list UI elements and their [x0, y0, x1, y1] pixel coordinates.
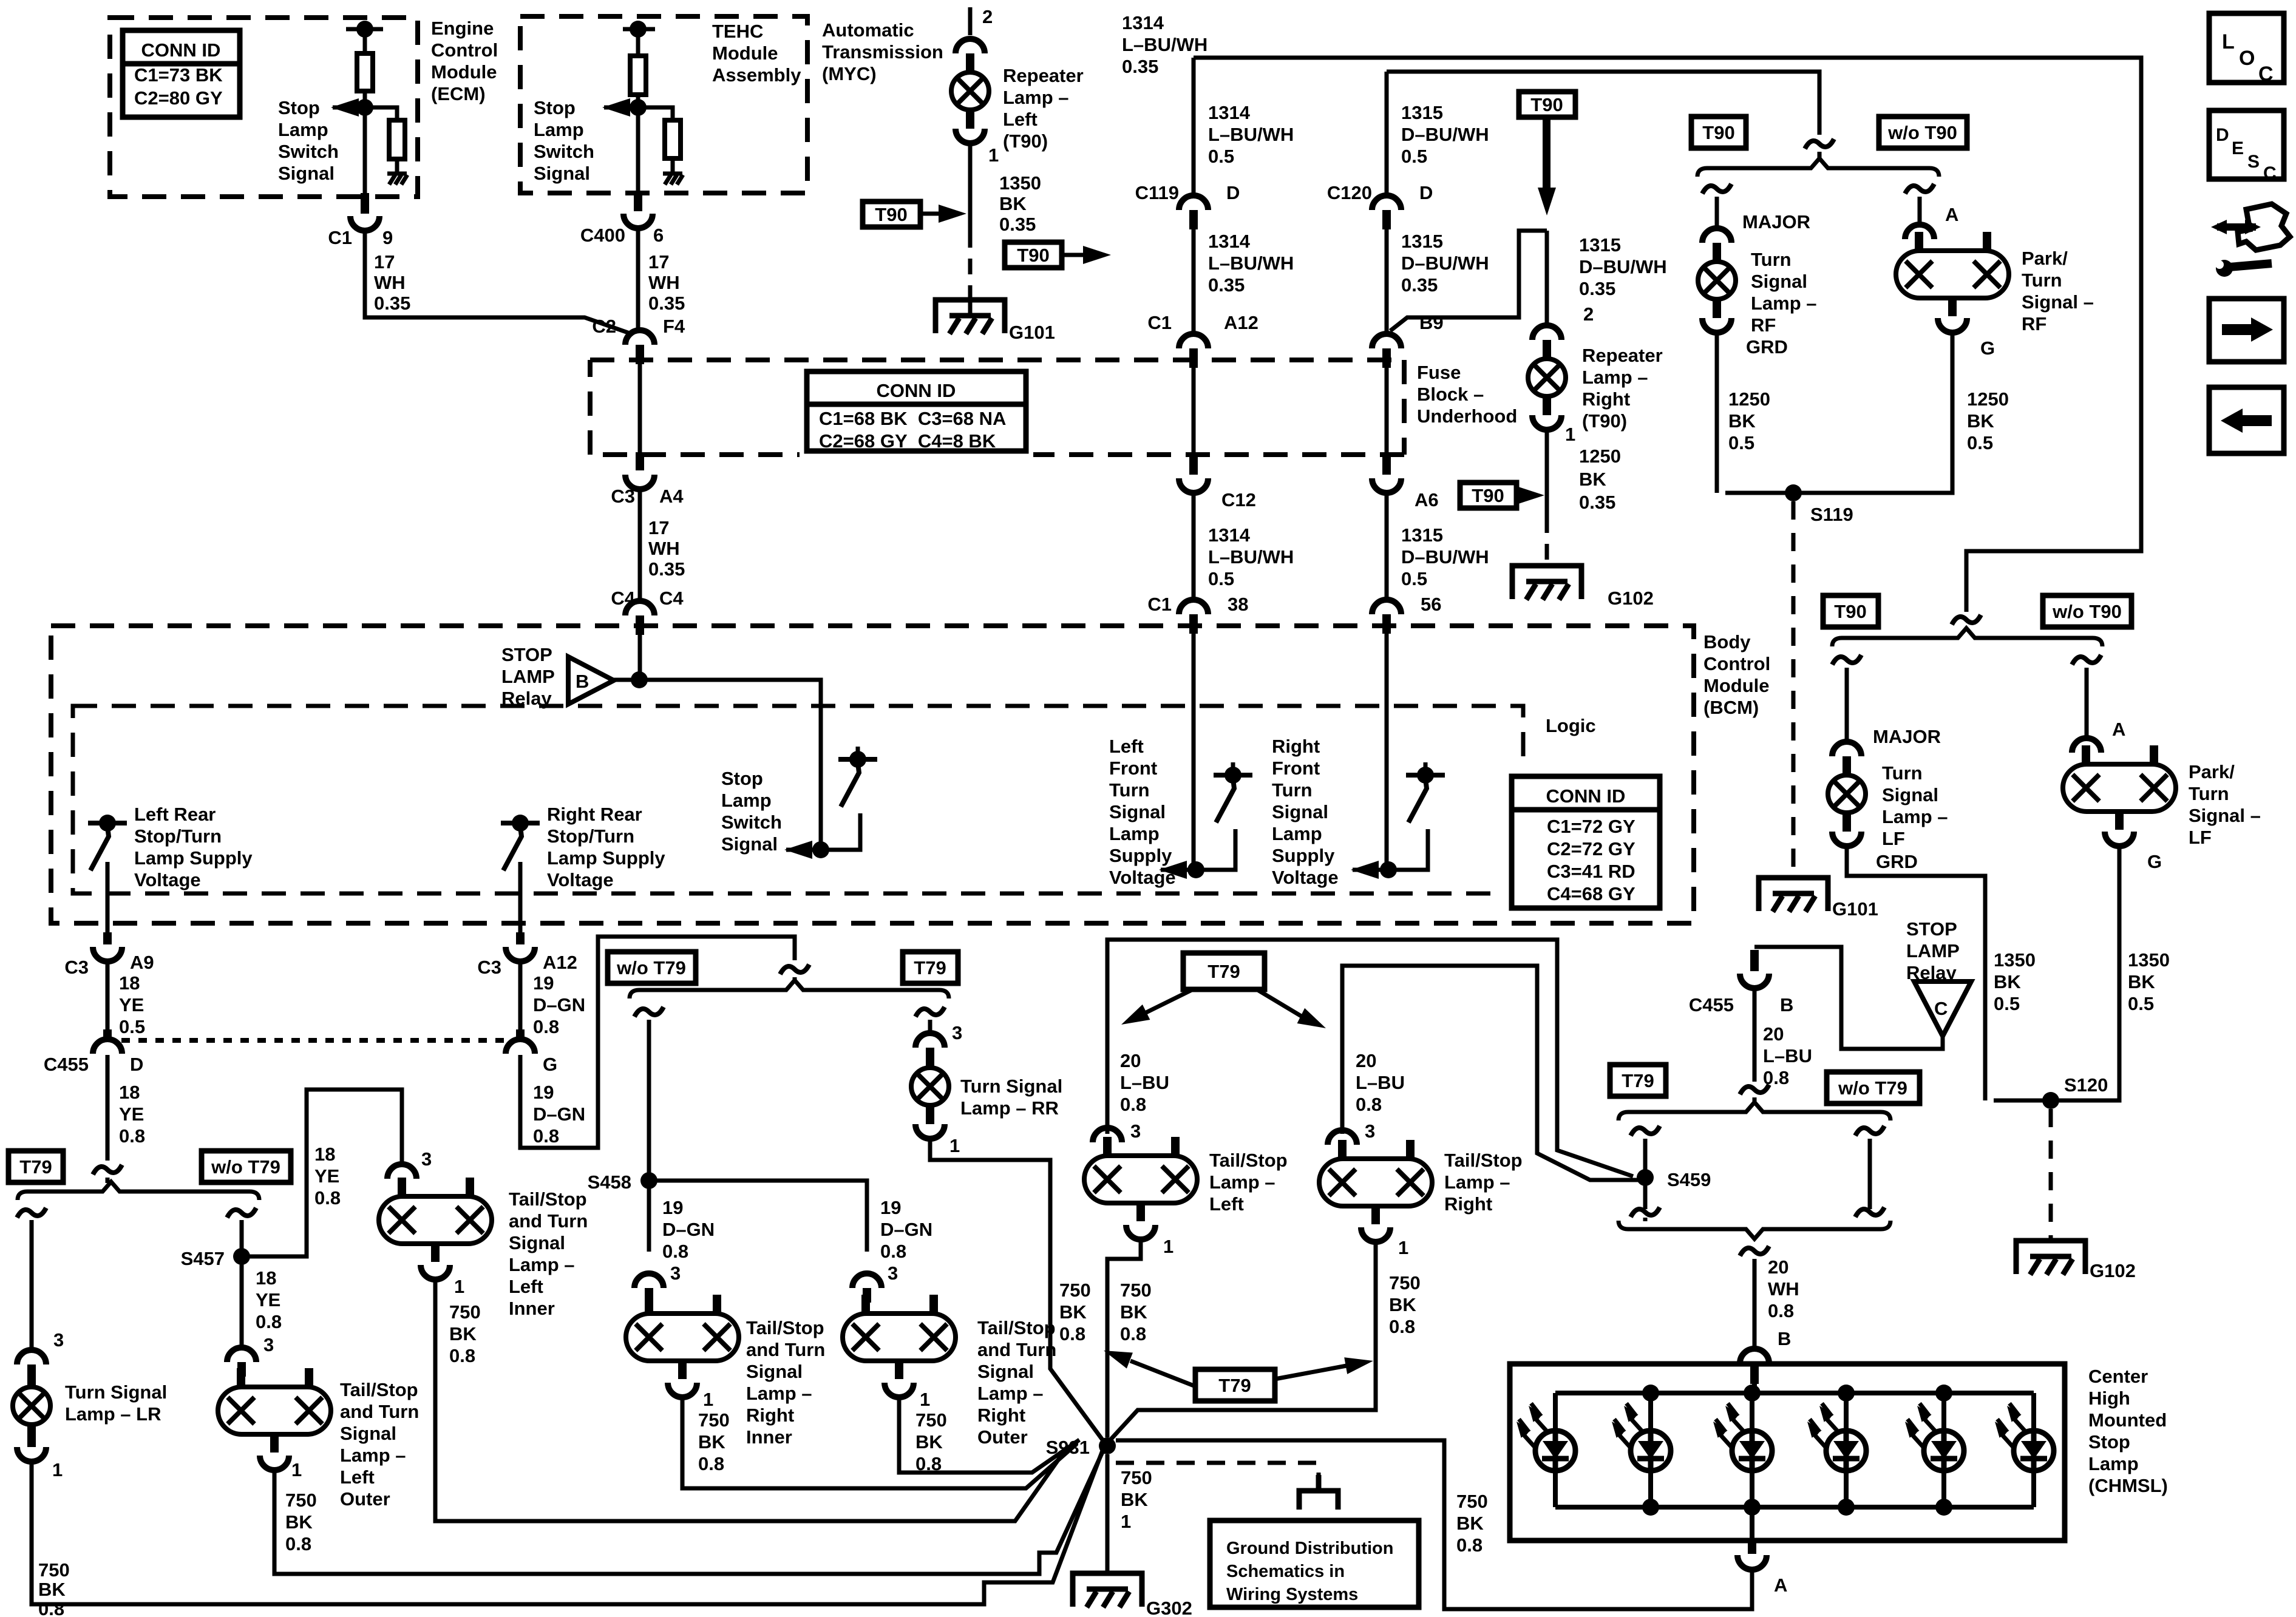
svg-text:Relay: Relay [501, 688, 552, 709]
splice S931 [1099, 1437, 1116, 1454]
switch left rear stop/turn (logic) [88, 821, 127, 825]
module box TEHC Module Assembly [520, 16, 807, 193]
svg-text:C: C [2258, 63, 2274, 86]
svg-text:Front: Front [1109, 758, 1157, 779]
connector right inner pin 1 [668, 1383, 697, 1397]
wire A9 to C455 [106, 960, 110, 1032]
svg-text:20: 20 [1768, 1256, 1788, 1278]
svg-text:Right: Right [1444, 1193, 1492, 1215]
svg-text:Lamp –: Lamp – [746, 1383, 812, 1404]
lamp Repeater Lamp - Right (T90) [1528, 359, 1566, 396]
svg-text:3: 3 [53, 1329, 64, 1351]
svg-text:A9: A9 [130, 952, 154, 973]
wire into BCM right front [1385, 634, 1389, 870]
svg-text:O: O [2239, 47, 2255, 70]
arrow T79 to left tail wire [1130, 1361, 1195, 1386]
resistor TEHC 2 [665, 120, 681, 158]
connector C455 pin G [506, 1039, 535, 1054]
svg-text:1314: 1314 [1208, 231, 1251, 252]
ground G101 (BCM) [1759, 878, 1828, 911]
box T90 callout (repeater left upper) [863, 202, 920, 227]
wire B9 jog to repeater right [1390, 231, 1547, 331]
svg-text:BK: BK [1579, 469, 1606, 490]
svg-text:1: 1 [920, 1389, 930, 1410]
svg-text:Tail/Stop: Tail/Stop [746, 1317, 824, 1338]
svg-text:C455: C455 [44, 1054, 89, 1075]
wire to MAJOR LF lamp [1845, 668, 1849, 744]
svg-text:WH: WH [648, 272, 680, 293]
svg-text:1: 1 [949, 1135, 960, 1156]
svg-text:0.8: 0.8 [119, 1125, 145, 1147]
wire repeater left to ground [968, 285, 973, 317]
svg-text:T79: T79 [1218, 1375, 1251, 1396]
module box CHMSL [1510, 1364, 2065, 1541]
svg-text:BK: BK [2128, 971, 2155, 992]
wire fuse block internal B9-A6 [1385, 368, 1389, 461]
splice S459 [1637, 1169, 1654, 1186]
wire A4 to C4 [638, 488, 642, 598]
wire brace to S459 [1643, 1139, 1648, 1209]
svg-text:Left: Left [340, 1466, 375, 1488]
splice S458 [640, 1172, 657, 1189]
svg-text:20: 20 [1356, 1050, 1376, 1071]
svg-text:C119: C119 [1135, 182, 1179, 203]
squiggle break (LF right) [2072, 655, 2101, 665]
svg-text:6: 6 [653, 225, 664, 246]
svg-text:Lamp –: Lamp – [1209, 1171, 1275, 1193]
relay STOP LAMP Relay C [1914, 981, 1971, 1036]
svg-text:C120: C120 [1327, 182, 1372, 203]
svg-text:1315: 1315 [1401, 231, 1443, 252]
svg-text:GRD: GRD [1876, 851, 1918, 872]
svg-text:750: 750 [915, 1409, 947, 1431]
node relay output junction [631, 671, 648, 688]
connector repeater right bottom [1532, 415, 1561, 430]
svg-text:Stop: Stop [721, 768, 763, 789]
svg-text:Right Rear: Right Rear [547, 804, 642, 825]
svg-text:3: 3 [888, 1263, 898, 1284]
svg-text:Left: Left [1209, 1193, 1244, 1215]
svg-text:G101: G101 [1009, 322, 1055, 343]
wire C455-B feed from relay [1754, 947, 1943, 1049]
svg-text:750: 750 [1121, 1467, 1152, 1488]
svg-text:Lamp: Lamp [534, 119, 584, 140]
svg-text:3: 3 [952, 1022, 962, 1043]
resistor TEHC pull-up [630, 56, 646, 95]
lamp Tail/Stop and Turn Signal Lamp - Right Inner [626, 1314, 739, 1361]
svg-text:Lamp –: Lamp – [1444, 1171, 1510, 1193]
svg-text:Lamp – LR: Lamp – LR [65, 1403, 161, 1425]
svg-text:G101: G101 [1832, 898, 1878, 920]
box T79 (tail/stop feed) [1183, 953, 1265, 989]
svg-text:Lamp Supply: Lamp Supply [134, 847, 253, 869]
svg-text:1: 1 [1398, 1237, 1408, 1258]
svg-text:T90: T90 [1834, 601, 1866, 622]
lamp Turn Signal Lamp - RR [911, 1068, 949, 1105]
svg-text:17: 17 [374, 251, 395, 273]
svg-text:L–BU: L–BU [1356, 1072, 1405, 1093]
connector LR lamp pin 3 [17, 1350, 46, 1364]
svg-text:L–BU/WH: L–BU/WH [1208, 124, 1294, 145]
svg-text:0.5: 0.5 [1208, 568, 1234, 589]
connector CHMSL pin A [1737, 1555, 1767, 1570]
svg-text:1: 1 [703, 1389, 713, 1410]
svg-text:C2=72 GY: C2=72 GY [1547, 838, 1635, 859]
svg-text:Outer: Outer [340, 1488, 390, 1510]
svg-text:BK: BK [915, 1431, 943, 1453]
svg-text:A4: A4 [659, 486, 684, 507]
box T79 (center) [903, 952, 958, 983]
node right front junction [1380, 861, 1397, 878]
svg-text:CONN ID: CONN ID [141, 39, 221, 61]
squiggle break (20 WH) [1740, 1246, 1769, 1256]
svg-text:750: 750 [285, 1490, 317, 1511]
lamp Tail/Stop Lamp - Right [1319, 1159, 1432, 1206]
svg-text:750: 750 [1456, 1491, 1488, 1512]
svg-text:750: 750 [38, 1559, 70, 1581]
lamp Park/Turn Signal - RF [1896, 251, 2009, 298]
svg-text:19: 19 [662, 1197, 683, 1218]
svg-text:0.35: 0.35 [648, 558, 685, 580]
svg-text:0.8: 0.8 [1389, 1316, 1415, 1337]
wire left outer to bus [274, 1449, 1104, 1574]
svg-text:Turn Signal: Turn Signal [65, 1381, 167, 1403]
arrow T90 down [1543, 117, 1550, 190]
connector MAJOR LF bottom GRD [1832, 832, 1861, 846]
svg-text:Inner: Inner [746, 1426, 792, 1448]
wire ECM C1-9 down and right [365, 229, 631, 334]
svg-text:Wiring Systems: Wiring Systems [1226, 1585, 1358, 1604]
svg-text:1315: 1315 [1401, 102, 1443, 123]
svg-text:S: S [2247, 152, 2260, 172]
svg-text:Control: Control [1703, 653, 1770, 674]
svg-text:18: 18 [119, 972, 140, 994]
svg-text:Supply: Supply [1109, 845, 1172, 866]
svg-text:0.35: 0.35 [1401, 274, 1438, 296]
svg-text:3: 3 [263, 1334, 274, 1355]
svg-text:WH: WH [374, 272, 406, 293]
svg-text:w/o T79: w/o T79 [1838, 1077, 1907, 1099]
svg-text:BK: BK [285, 1511, 313, 1533]
ground G102 (right) [2016, 1241, 2085, 1274]
arrow stop lamp switch signal [786, 848, 821, 852]
svg-text:0.35: 0.35 [999, 214, 1036, 235]
wire into BCM left front [1192, 634, 1196, 870]
svg-text:Signal: Signal [1751, 271, 1807, 292]
svg-text:Voltage: Voltage [547, 869, 614, 890]
squiggle break (line B) [1805, 139, 1834, 149]
wire CHMSL A to S931 return [1116, 1440, 1752, 1609]
connector CHMSL pin B [1740, 1349, 1769, 1363]
svg-text:Right: Right [977, 1405, 1025, 1426]
squiggle break (right rear feed) [780, 964, 809, 974]
svg-text:1314: 1314 [1122, 12, 1164, 33]
svg-text:BK: BK [698, 1431, 725, 1453]
wire RF GRD down to S119 [1715, 331, 1719, 493]
svg-text:Left: Left [509, 1276, 543, 1297]
icon box LOC [2209, 13, 2284, 83]
svg-text:750: 750 [698, 1409, 730, 1431]
lamp Park/Turn Signal - LF [2063, 764, 2176, 812]
lamp Repeater Lamp - Left (T90) [951, 72, 989, 110]
svg-text:YE: YE [119, 994, 144, 1015]
svg-text:Voltage: Voltage [1272, 867, 1339, 888]
svg-text:D: D [1419, 182, 1433, 203]
svg-text:A: A [1774, 1575, 1787, 1596]
svg-text:0.35: 0.35 [374, 293, 410, 314]
svg-text:0.8: 0.8 [1120, 1094, 1146, 1115]
connector C455 pin B [1750, 950, 1759, 971]
wire dashed option segment [968, 232, 973, 285]
svg-text:Stop: Stop [534, 97, 576, 118]
svg-text:1315: 1315 [1579, 234, 1621, 256]
connector C12 (fuse to BCM left) [1189, 456, 1198, 475]
svg-text:BK: BK [1994, 971, 2021, 992]
svg-text:1: 1 [52, 1459, 63, 1480]
svg-text:0.5: 0.5 [1401, 568, 1427, 589]
wire A6 to 56 [1385, 492, 1389, 597]
svg-text:Left: Left [1109, 736, 1144, 757]
svg-text:TEHC: TEHC [712, 21, 763, 42]
svg-text:2: 2 [982, 6, 993, 27]
node TEHC signal junction [630, 99, 647, 116]
squiggle break (S459 bottom) [1631, 1207, 1660, 1217]
wire repeater right pin1 down [1545, 429, 1549, 517]
svg-text:LF: LF [1882, 828, 1905, 849]
lamp Tail/Stop and Turn Signal Lamp - Left Outer [218, 1387, 331, 1434]
svg-text:Underhood: Underhood [1417, 405, 1517, 427]
svg-text:Signal: Signal [977, 1361, 1034, 1382]
svg-text:0.5: 0.5 [119, 1016, 145, 1037]
switch right front turn (logic) [1406, 773, 1445, 778]
svg-text:Turn: Turn [1882, 762, 1923, 784]
resistor ECM pull-up [357, 53, 373, 91]
svg-text:Turn: Turn [2189, 783, 2229, 804]
svg-text:Switch: Switch [534, 141, 594, 162]
svg-text:1350: 1350 [2128, 949, 2170, 971]
svg-text:(T90): (T90) [1003, 131, 1048, 152]
switch left front turn (logic) [1214, 773, 1252, 778]
switch right rear stop/turn (logic) [501, 821, 540, 825]
svg-text:1: 1 [988, 144, 999, 166]
svg-text:Signal: Signal [1272, 801, 1328, 822]
svg-text:0.8: 0.8 [533, 1016, 559, 1037]
connector right inner pin 3 [634, 1273, 664, 1288]
svg-text:0.35: 0.35 [1579, 278, 1615, 299]
wire to RR lamp [928, 1020, 932, 1036]
wire C120 to B9 [1385, 229, 1389, 335]
svg-text:Assembly: Assembly [712, 64, 801, 86]
squiggle break (LR lamp) [17, 1208, 46, 1218]
svg-text:D–GN: D–GN [533, 994, 585, 1015]
svg-text:D–GN: D–GN [662, 1219, 715, 1240]
svg-text:56: 56 [1421, 594, 1441, 615]
svg-text:Lamp: Lamp [1272, 823, 1322, 844]
arrow right front supply voltage [1353, 868, 1388, 872]
svg-text:D–BU/WH: D–BU/WH [1579, 256, 1667, 277]
svg-text:Signal: Signal [721, 833, 778, 855]
svg-text:Tail/Stop: Tail/Stop [509, 1188, 587, 1210]
lamp Tail/Stop and Turn Signal Lamp - Right Outer [843, 1314, 956, 1361]
node ECM signal junction [356, 99, 373, 116]
module box ECM (Engine Control Module) [110, 18, 418, 197]
table CONN ID (fuse block) [800, 364, 1033, 458]
svg-text:0.8: 0.8 [449, 1345, 475, 1366]
box T90 callout (top) [1519, 92, 1575, 117]
svg-text:Tail/Stop: Tail/Stop [1444, 1150, 1523, 1171]
wire CHMSL top bus [1752, 1364, 1757, 1393]
svg-text:Signal: Signal [746, 1361, 803, 1382]
svg-text:T90: T90 [1017, 245, 1049, 266]
node left front junction [1187, 861, 1204, 878]
svg-text:BK: BK [1389, 1294, 1416, 1315]
box T79 (bottom) [1195, 1369, 1275, 1401]
brace C455-B options [1618, 1102, 1890, 1120]
wire dashed to G102 [1545, 517, 1549, 563]
svg-text:Voltage: Voltage [1109, 867, 1176, 888]
svg-text:0.35: 0.35 [1579, 492, 1615, 513]
svg-text:Fuse: Fuse [1417, 362, 1461, 383]
table CONN ID (ECM) [115, 23, 247, 124]
svg-text:S119: S119 [1810, 504, 1853, 525]
svg-text:BK: BK [1121, 1489, 1148, 1510]
wire Park/Turn RF G to S119 [1725, 331, 1952, 493]
svg-text:Signal –: Signal – [2189, 805, 2261, 826]
box Ground Distribution Schematics in Wiring Systems [1210, 1520, 1419, 1607]
svg-text:Lamp – RR: Lamp – RR [960, 1097, 1059, 1119]
wire to S457 [240, 1220, 244, 1256]
svg-text:Left Rear: Left Rear [134, 804, 216, 825]
svg-text:Repeater: Repeater [1582, 345, 1663, 366]
svg-text:Turn: Turn [1109, 779, 1150, 801]
svg-text:1: 1 [454, 1276, 464, 1297]
svg-text:Outer: Outer [977, 1426, 1028, 1448]
svg-text:19: 19 [533, 972, 554, 994]
svg-text:C1=72 GY: C1=72 GY [1547, 816, 1635, 837]
box w/o T79 (left) [202, 1151, 291, 1182]
connector Park/Turn RF pin G [1938, 318, 1967, 333]
svg-text:CONN ID: CONN ID [877, 380, 956, 401]
wire option line to tail/stop left [1107, 940, 1633, 1176]
box T79 (S459 feed) [1610, 1065, 1666, 1096]
svg-text:Signal: Signal [340, 1423, 396, 1444]
svg-text:G: G [2147, 851, 2162, 872]
svg-text:1350: 1350 [999, 172, 1041, 194]
wire fuse block internal F4-A4 [638, 364, 642, 456]
brace right rear options [630, 980, 949, 998]
svg-text:A12: A12 [1224, 312, 1258, 333]
svg-text:Ground Distribution: Ground Distribution [1226, 1539, 1393, 1558]
splice S120 [2042, 1092, 2059, 1109]
connector MAJOR LF top [1832, 742, 1861, 756]
wire C455-D down to brace [106, 1055, 110, 1161]
svg-text:T90: T90 [1530, 94, 1563, 115]
connector A6 (fuse to BCM right) [1382, 456, 1391, 475]
wire A12 to C455-G [518, 960, 523, 1032]
lamp Turn Signal Lamp - RF [1698, 262, 1736, 299]
svg-text:C: C [2263, 163, 2277, 183]
box T79 (left) [8, 1151, 63, 1182]
wire w/o T79 passthrough [1868, 1139, 1872, 1209]
svg-text:18: 18 [256, 1267, 276, 1289]
connector right outer pin 1 [885, 1383, 914, 1397]
svg-text:Signal: Signal [509, 1232, 565, 1253]
wire LF GRD to S120 [1847, 845, 1985, 1100]
svg-text:L–BU: L–BU [1120, 1072, 1169, 1093]
ground G102 (engine) [1512, 566, 1581, 599]
arrow T90 callout to wire [920, 212, 945, 216]
wire fuse block internal A12-C12 [1192, 368, 1196, 461]
svg-text:C12: C12 [1221, 489, 1256, 510]
svg-text:Module: Module [712, 42, 778, 64]
node junction ECM top [356, 21, 373, 38]
svg-text:3: 3 [1365, 1120, 1375, 1142]
svg-text:Block –: Block – [1417, 384, 1484, 405]
svg-text:D: D [1226, 182, 1240, 203]
svg-text:BK: BK [1456, 1513, 1484, 1534]
svg-text:D: D [2216, 125, 2229, 145]
connector tail/stop right pin 1 [1361, 1227, 1390, 1242]
svg-text:T79: T79 [1622, 1070, 1654, 1091]
svg-text:G302: G302 [1146, 1598, 1192, 1617]
svg-text:T79: T79 [19, 1156, 52, 1178]
connector repeater left bottom [956, 129, 985, 143]
svg-text:Signal –: Signal – [2022, 291, 2094, 313]
svg-text:S459: S459 [1667, 1169, 1711, 1190]
svg-text:0.8: 0.8 [662, 1241, 688, 1262]
connector C455 pin D [93, 1039, 122, 1054]
svg-text:w/o T79: w/o T79 [616, 957, 686, 978]
svg-text:(MYC): (MYC) [822, 63, 877, 84]
svg-text:1: 1 [1121, 1511, 1131, 1532]
svg-text:1314: 1314 [1208, 524, 1251, 546]
svg-text:0.35: 0.35 [648, 293, 685, 314]
svg-text:CONN ID: CONN ID [1546, 785, 1626, 807]
svg-text:BK: BK [1728, 410, 1756, 432]
svg-text:and Turn: and Turn [509, 1210, 588, 1232]
LED D2 (CHMSL) [1648, 1393, 1653, 1507]
lamp Tail/Stop and Turn Signal Lamp - Left Inner [379, 1196, 492, 1244]
svg-text:GRD: GRD [1746, 336, 1788, 358]
svg-text:L–BU/WH: L–BU/WH [1122, 34, 1207, 55]
wire repeater left pin2 from top [968, 7, 973, 35]
svg-text:Switch: Switch [278, 141, 339, 162]
icon box DESC [2209, 110, 2284, 179]
node stop lamp switch signal junction [812, 841, 829, 858]
relay STOP LAMP Relay B [568, 657, 614, 704]
svg-text:Turn: Turn [1751, 249, 1792, 270]
wire ECM branch to resistor 2 [365, 107, 397, 120]
svg-text:17: 17 [648, 517, 669, 538]
box T90 callout (repeater right) [1460, 483, 1517, 508]
svg-text:0.8: 0.8 [314, 1187, 341, 1209]
svg-text:BK: BK [999, 193, 1027, 214]
svg-text:D–BU/WH: D–BU/WH [1401, 124, 1489, 145]
brace LF options [1832, 628, 2102, 646]
svg-text:1: 1 [291, 1459, 302, 1480]
svg-text:Transmission: Transmission [822, 41, 943, 63]
ground G101 (repeater left) [936, 300, 1005, 333]
svg-text:19: 19 [880, 1197, 901, 1218]
connector C1 pin 9 [350, 216, 379, 231]
LED D6 (CHMSL) [2031, 1393, 2036, 1507]
svg-text:Tail/Stop: Tail/Stop [1209, 1150, 1288, 1171]
svg-text:T90: T90 [875, 204, 907, 225]
svg-text:Body: Body [1703, 631, 1751, 653]
svg-text:Park/: Park/ [2189, 761, 2235, 782]
arrow T79 to left lamp wire [1141, 989, 1193, 1015]
svg-text:D–GN: D–GN [533, 1103, 585, 1125]
